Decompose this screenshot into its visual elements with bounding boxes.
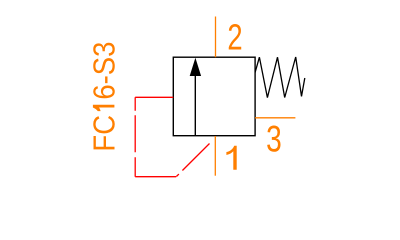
port 3 line <box>255 117 295 119</box>
pilot line horizontal bottom segment <box>135 176 176 178</box>
svg-text:6-S3: 6-S3 <box>87 42 121 100</box>
svg-text:FC: FC <box>87 115 121 152</box>
port 1 label <box>226 146 236 170</box>
port 2 line <box>215 17 217 58</box>
label FC16-S3 digit 1 <box>93 105 115 111</box>
port 1 line <box>214 136 216 176</box>
valve body box <box>173 57 255 136</box>
svg-text:2: 2 <box>227 17 242 58</box>
pilot line solid horizontal segment <box>135 96 173 98</box>
pilot line dashed vertical segment <box>134 97 136 176</box>
flow arrow head <box>190 58 201 76</box>
svg-text:3: 3 <box>266 118 282 160</box>
pilot line dashed diagonal segment <box>176 144 209 177</box>
spring <box>255 57 305 98</box>
flow arrow stem <box>194 76 196 136</box>
